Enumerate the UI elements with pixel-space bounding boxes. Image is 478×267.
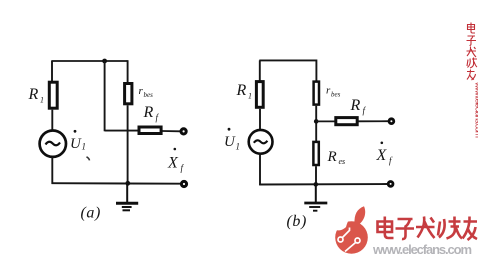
wire: (b) bottom rail <box>259 183 388 186</box>
wire: (b) right rail Re to bottom <box>315 166 317 185</box>
source U1 (b) sine symbol <box>254 140 268 143</box>
resistor Rf (b) body <box>336 118 357 125</box>
label R1 (a) <box>28 86 45 105</box>
resistor rbe (a) body <box>125 84 132 104</box>
svg-text:R: R <box>28 86 39 103</box>
label Xf (a) <box>167 148 185 173</box>
svg-text:U: U <box>224 134 236 150</box>
wire: (a) top horizontal <box>51 60 127 62</box>
svg-text:1: 1 <box>40 96 44 105</box>
wire: (a) right rail rbe down to bottom rail <box>127 105 129 183</box>
svg-text:R: R <box>236 82 247 99</box>
source U1 (a) sine symbol <box>46 142 61 146</box>
v-char 电 <box>468 23 476 34</box>
source U1 (a) circle <box>40 131 66 157</box>
label Rf (a) <box>143 104 160 123</box>
svg-text:X: X <box>376 147 388 164</box>
resistor Rf (a) body <box>139 127 161 134</box>
wire: (a) horizontal feedback wire to Rf <box>105 130 139 132</box>
resistor R1 (b) body <box>256 82 263 108</box>
svg-text:bes: bes <box>144 91 154 99</box>
label Re (b) <box>327 149 346 166</box>
label Rf (b) <box>350 97 367 116</box>
char 电 <box>378 217 394 239</box>
svg-text:U: U <box>70 136 82 152</box>
svg-text:R: R <box>327 149 337 165</box>
char 子 <box>396 219 415 239</box>
ground (a) <box>116 184 138 211</box>
svg-text:1: 1 <box>236 142 241 152</box>
watermark icon traces <box>342 228 349 238</box>
v-char 子 <box>467 36 477 46</box>
watermark icon flame tip <box>354 206 365 224</box>
wire: (a) left rail source to bottom <box>51 157 53 184</box>
label U1 (b) <box>224 128 240 152</box>
node: (b) feedback junction <box>314 119 319 124</box>
svg-text:1: 1 <box>248 92 252 101</box>
wire: (a) left rail R1 to source <box>51 110 53 131</box>
v-char 友 <box>467 70 476 81</box>
char 发 <box>416 217 435 239</box>
wire: Rf to top output terminal (a) <box>163 130 181 132</box>
wire: (b) left rail upper <box>259 60 261 81</box>
terminal: (a) top output <box>181 129 186 134</box>
svg-text:es: es <box>339 157 346 166</box>
node: (a) top junction <box>102 59 107 64</box>
wire: (a) middle rail (junction down to Rf wire) <box>104 61 106 131</box>
svg-text:(a): (a) <box>81 205 101 222</box>
watermark vertical text right edge <box>467 23 478 139</box>
label rbe (b) <box>326 85 341 99</box>
svg-text:R: R <box>350 97 361 114</box>
source U1 (b) circle <box>249 130 273 154</box>
node: (a) bottom junction at ground <box>125 181 130 186</box>
wire: (a) left rail upper (top wire to R1) <box>51 61 53 82</box>
wire: (b) right rail rbe to Re <box>315 106 317 141</box>
wire: (b) top horizontal <box>259 59 316 61</box>
svg-text:(b): (b) <box>287 213 307 230</box>
v-char 烧 <box>467 58 477 69</box>
watermark icon white swoosh cutout <box>334 206 359 231</box>
terminal: (b) bottom output <box>388 182 393 187</box>
resistor Re (b) body <box>313 142 318 165</box>
terminal: (a) bottom output <box>181 181 186 186</box>
svg-text:www.elecfans.com: www.elecfans.com <box>372 242 472 257</box>
label rbe (a) <box>139 85 154 99</box>
terminal: (b) top output <box>389 119 394 124</box>
resistor R1 (a) body <box>49 82 57 108</box>
wire: (a) bottom rail <box>52 182 181 185</box>
svg-text:R: R <box>143 104 154 121</box>
wire: (b) horizontal feedback wire to Rf <box>316 120 335 122</box>
svg-text:1: 1 <box>82 142 87 152</box>
svg-text:X: X <box>167 155 179 172</box>
watermark logo icon: red disc <box>334 206 368 254</box>
watermark icon trace pads <box>338 237 343 242</box>
ground (b) <box>304 184 327 210</box>
wire: (b) right rail top <box>315 60 317 82</box>
wire: (a) right rail top (corner to rbe box) <box>127 60 129 82</box>
label U1 (a) <box>70 130 86 152</box>
wire: (b) left rail source to bottom <box>259 153 261 185</box>
node: (b) bottom junction at ground <box>314 182 319 187</box>
label R1 (b) <box>236 82 253 101</box>
label Xf (b) <box>376 142 394 166</box>
v-char 发 <box>467 47 477 58</box>
char 烧 <box>438 217 462 239</box>
resistor rbe (b) body <box>314 82 319 105</box>
svg-text:bes: bes <box>331 91 341 99</box>
wire: (b) left rail R1 to source <box>259 109 261 131</box>
svg-text:www.elecfans.com: www.elecfans.com <box>474 81 478 138</box>
wire: Rf to top output terminal (b) <box>359 120 389 122</box>
char 友 <box>463 217 478 241</box>
watermark text 电子发烧友 (drawn strokes) <box>378 217 478 241</box>
stray scan tick near U1 (a) <box>87 157 90 161</box>
